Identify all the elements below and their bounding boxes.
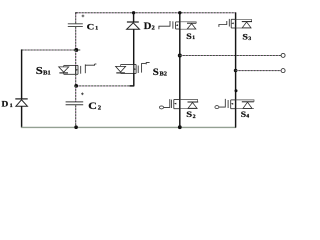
wire: middle horizontal M2 from C column to SB2 column — [76, 85, 134, 87]
MOSFET S3 — [219, 19, 252, 28]
junction dot M1 / C column — [74, 48, 78, 52]
switch SB2 (MOSFET with antiparallel diode, mirrored) — [116, 63, 150, 74]
junction dot M2 / C column — [74, 84, 78, 88]
diode D1 — [15, 99, 27, 106]
MOSFET S2 — [159, 99, 198, 109]
svg-text:B1: B1 — [43, 70, 51, 77]
svg-text:D: D — [144, 21, 152, 31]
label S1 — [186, 32, 195, 41]
svg-text:2: 2 — [152, 25, 155, 32]
wire: C column, top rail down to C1 top plate — [75, 12, 77, 23]
terminal circle 2 — [281, 69, 285, 73]
label S3 — [242, 33, 251, 42]
label D1 — [2, 99, 13, 109]
svg-text:2: 2 — [98, 105, 101, 112]
wire: bottom rail — [21, 126, 236, 128]
switch SB1 (MOSFET with antiparallel diode, mirrored) — [59, 64, 97, 75]
junction dot leg B above S4 — [235, 89, 238, 92]
label SB1 — [36, 64, 51, 77]
junction dot bottom rail / C column — [74, 125, 78, 129]
MOSFET S4 — [215, 99, 254, 109]
wire: leg A, S2 to bottom rail — [179, 109, 181, 128]
svg-text:S: S — [153, 67, 159, 77]
svg-text:1: 1 — [95, 26, 98, 32]
junction dot top rail / D2 column — [132, 11, 135, 14]
wire: C column, M1 junction down to SB1 — [75, 50, 77, 65]
terminal circle 1 — [281, 53, 285, 57]
wire: D2 column, SB2 down to M2 corner — [133, 73, 135, 86]
svg-text:C: C — [87, 23, 95, 32]
label S2 — [186, 110, 196, 120]
svg-text:S: S — [186, 32, 192, 41]
wire: leg B, S4 to bottom rail — [235, 109, 237, 128]
svg-text:D: D — [2, 99, 9, 108]
wire: left branch vertical (upper part, corner to D1) — [21, 49, 23, 98]
junction dot bottom rail / leg A — [178, 125, 182, 129]
wire: C column, M2 junction down to C2 — [75, 86, 77, 102]
svg-text:B2: B2 — [160, 72, 167, 78]
svg-text:S: S — [186, 110, 192, 120]
svg-text:4: 4 — [246, 114, 249, 120]
wire: C column, C1 bottom plate to mid-wire junction — [75, 27, 77, 50]
wire: corner tick at C column / top rail — [76, 13, 78, 14]
wire: leg A, top rail to S1 — [179, 13, 181, 29]
wire: output W2 to terminal — [236, 70, 281, 72]
wire: left branch vertical (lower part, D1 to bottom rail) — [21, 106, 23, 127]
svg-text:2: 2 — [193, 114, 196, 120]
wire: C column, SB1 to M2 junction — [75, 74, 77, 86]
label S4 — [241, 110, 250, 120]
svg-text:3: 3 — [248, 36, 251, 42]
wire: output W1 to terminal — [180, 55, 281, 57]
wire: middle horizontal M1 from left branch to C column — [22, 49, 81, 51]
svg-text:S: S — [242, 33, 248, 42]
svg-text:1: 1 — [10, 103, 13, 109]
wire: C column, C2 to bottom rail — [75, 105, 77, 127]
wire: leg B, top rail corner to S3 — [235, 12, 237, 28]
label D2 — [144, 21, 155, 31]
capacitor C2 — [66, 93, 84, 105]
wire: top rail from C1 column to S3 leg — [76, 12, 236, 14]
capacitor C1 — [68, 15, 84, 27]
wire: D2 column, D2 anode down to SB2 — [133, 29, 135, 64]
label C2 — [88, 101, 101, 112]
svg-text:1: 1 — [192, 35, 195, 41]
junction dot top rail / leg A — [178, 11, 181, 14]
wire: D2 column, top rail to D2 cathode — [133, 13, 135, 22]
label C1 — [87, 23, 99, 32]
diode D2 — [127, 22, 140, 29]
label SB2 — [153, 67, 167, 77]
svg-text:C: C — [88, 101, 97, 112]
wire: leg B, S3 to S4 — [235, 28, 237, 109]
junction dot W2 / leg B — [234, 69, 238, 73]
junction dot W1 / leg A — [178, 54, 182, 58]
wire: leg A, S1 to S2 — [179, 29, 181, 109]
MOSFET S1 — [159, 21, 196, 29]
